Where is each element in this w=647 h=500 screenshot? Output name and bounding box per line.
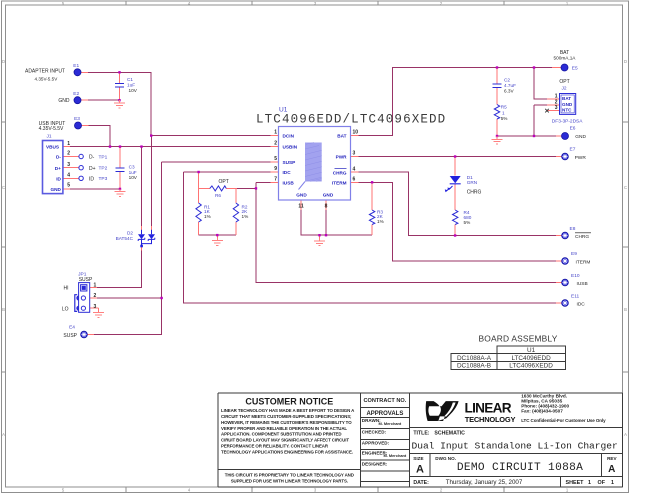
svg-text:SUSP: SUSP	[63, 333, 77, 339]
svg-text:IUSB: IUSB	[577, 281, 588, 287]
svg-text:1: 1	[588, 480, 591, 486]
svg-text:6.3V: 6.3V	[504, 89, 515, 94]
svg-text:7: 7	[274, 176, 277, 182]
svg-text:APPLICATION. COMPONENT SUBSTI: APPLICATION. COMPONENT SUBSTITUTION AND …	[221, 432, 341, 437]
svg-text:DF3-3P-2DSA: DF3-3P-2DSA	[552, 118, 583, 124]
svg-text:PWR: PWR	[336, 155, 348, 160]
svg-text:ITERM: ITERM	[332, 180, 347, 185]
svg-text:D: D	[2, 59, 5, 64]
svg-text:DESIGNER:: DESIGNER:	[362, 462, 388, 467]
svg-text:3: 3	[94, 304, 97, 310]
svg-text:CONTRACT NO.: CONTRACT NO.	[363, 398, 406, 404]
svg-text:SUSP: SUSP	[283, 160, 296, 165]
svg-text:D-: D-	[56, 155, 61, 160]
svg-text:8: 8	[325, 204, 328, 210]
svg-text:E5: E5	[572, 65, 578, 71]
svg-text:BAT: BAT	[562, 96, 571, 101]
svg-text:ID: ID	[89, 176, 94, 182]
svg-text:J2: J2	[561, 86, 566, 92]
svg-text:DEMO CIRCUIT 1088A: DEMO CIRCUIT 1088A	[457, 462, 583, 474]
svg-text:A: A	[624, 432, 627, 437]
svg-text:TP1: TP1	[99, 154, 108, 160]
svg-text:1: 1	[611, 480, 614, 486]
svg-text:1: 1	[274, 130, 277, 136]
svg-text:PERFORMANCE OR RELIABILITY. C: PERFORMANCE OR RELIABILITY. CONTACT LINE…	[221, 444, 329, 449]
svg-text:IUSB: IUSB	[283, 180, 295, 185]
svg-text:E6: E6	[570, 126, 576, 132]
svg-text:OF: OF	[598, 480, 606, 486]
svg-text:CUSTOMER NOTICE: CUSTOMER NOTICE	[245, 397, 333, 407]
svg-text:5%: 5%	[464, 220, 471, 225]
svg-text:OPT: OPT	[219, 179, 229, 185]
svg-text:VBUS: VBUS	[46, 145, 59, 150]
svg-text:HI: HI	[64, 286, 69, 292]
svg-text:Dual Input Standalone Li-Ion C: Dual Input Standalone Li-Ion Charger	[412, 440, 618, 451]
svg-text:TECHNOLOGY APPLICATIONS ENGINE: TECHNOLOGY APPLICATIONS ENGINEERING FOR …	[221, 449, 353, 454]
svg-text:10V: 10V	[129, 175, 138, 180]
svg-text:2: 2	[67, 151, 70, 157]
svg-text:PWR: PWR	[575, 155, 587, 161]
svg-text:3: 3	[353, 151, 356, 157]
svg-text:GND: GND	[575, 134, 586, 140]
svg-text:LTC Confidential-For Customer: LTC Confidential-For Customer Use Only	[521, 418, 606, 423]
svg-text:LO: LO	[62, 306, 69, 312]
svg-text:E4: E4	[69, 325, 75, 331]
svg-text:U1: U1	[527, 347, 536, 354]
svg-text:GRN: GRN	[467, 180, 477, 185]
svg-text:D+: D+	[89, 166, 96, 172]
svg-text:M. Merchant: M. Merchant	[379, 421, 402, 426]
svg-text:B: B	[624, 307, 627, 312]
svg-text:DWG NO.: DWG NO.	[435, 456, 456, 461]
svg-text:1: 1	[502, 110, 505, 115]
svg-text:THIS CIRCUIT IS PROPRIETARY TO: THIS CIRCUIT IS PROPRIETARY TO LINEAR TE…	[225, 472, 354, 477]
svg-text:LINEAR: LINEAR	[465, 400, 512, 415]
svg-text:LTC4096EDD: LTC4096EDD	[511, 355, 551, 362]
svg-text:1K: 1K	[204, 209, 211, 214]
svg-text:REV: REV	[607, 456, 617, 461]
svg-text:CIRCUIT THAT MEETS CUSTOMER-SU: CIRCUIT THAT MEETS CUSTOMER-SUPPLIED SPE…	[221, 414, 352, 419]
svg-text:1%: 1%	[204, 214, 211, 219]
svg-text:C2: C2	[504, 77, 510, 82]
svg-text:IDC: IDC	[283, 170, 292, 175]
svg-text:D+: D+	[55, 166, 61, 171]
svg-text:2: 2	[274, 141, 277, 147]
svg-text:D-: D-	[89, 155, 95, 161]
svg-text:D2: D2	[127, 231, 133, 236]
svg-text:SUSP: SUSP	[79, 277, 93, 283]
svg-text:5%: 5%	[501, 116, 508, 121]
svg-text:C3: C3	[129, 165, 135, 170]
svg-text:D: D	[624, 59, 627, 64]
svg-text:VERIFY PROPER AND RELIABLE OPE: VERIFY PROPER AND RELIABLE OPERATION IN …	[221, 426, 347, 431]
svg-text:TECHNOLOGY: TECHNOLOGY	[465, 415, 516, 424]
svg-text:C1: C1	[127, 77, 133, 82]
svg-text:CHRG: CHRG	[467, 190, 482, 196]
svg-text:BAT54C: BAT54C	[116, 236, 134, 241]
svg-text:E3: E3	[74, 116, 80, 122]
svg-text:1%: 1%	[377, 219, 384, 224]
svg-text:GND: GND	[562, 102, 573, 107]
svg-text:4.35V-5.5V: 4.35V-5.5V	[39, 126, 64, 132]
svg-text:J1: J1	[47, 133, 52, 139]
svg-text:OPT: OPT	[559, 79, 569, 85]
svg-text:2K: 2K	[242, 209, 249, 214]
svg-text:E11: E11	[571, 294, 580, 300]
svg-text:APPROVED:: APPROVED:	[362, 440, 390, 445]
svg-text:GND: GND	[323, 192, 334, 197]
svg-text:1: 1	[94, 282, 97, 288]
svg-text:DATE:: DATE:	[413, 480, 429, 486]
svg-text:9: 9	[274, 166, 277, 172]
svg-text:BAT: BAT	[337, 134, 346, 139]
svg-text:1uF: 1uF	[129, 170, 137, 175]
svg-text:R5: R5	[501, 105, 507, 110]
svg-text:USBIN: USBIN	[283, 145, 298, 150]
svg-text:DC1088A-B: DC1088A-B	[457, 363, 491, 370]
svg-text:DCIN: DCIN	[283, 134, 295, 139]
svg-text:E9: E9	[571, 251, 577, 257]
svg-text:6: 6	[353, 176, 356, 182]
svg-text:1uF: 1uF	[127, 83, 135, 88]
svg-text:1%: 1%	[242, 214, 249, 219]
svg-text:GND: GND	[58, 98, 70, 104]
svg-text:SCHEMATIC: SCHEMATIC	[434, 431, 465, 437]
svg-text:TP3: TP3	[99, 176, 108, 182]
svg-text:LINEAR TECHNOLOGY HAS MADE A B: LINEAR TECHNOLOGY HAS MADE A BEST EFFORT…	[221, 408, 355, 413]
svg-text:DC1088A-A: DC1088A-A	[457, 355, 492, 362]
svg-text:CHECKED:: CHECKED:	[362, 430, 387, 435]
svg-text:A: A	[416, 463, 424, 475]
svg-text:680: 680	[464, 215, 472, 220]
svg-text:E2: E2	[73, 91, 79, 97]
svg-text:SIZE: SIZE	[413, 456, 423, 461]
svg-text:CIRUIT BOARD LAYOUT MAY SIGNIF: CIRUIT BOARD LAYOUT MAY SIGNIFICANTLY AF…	[221, 438, 349, 443]
svg-text:C: C	[624, 185, 627, 190]
svg-text:2K: 2K	[377, 214, 384, 219]
svg-text:SHEET: SHEET	[566, 480, 585, 486]
svg-text:TITLE:: TITLE:	[413, 431, 429, 437]
svg-text:4.7uF: 4.7uF	[504, 83, 516, 88]
svg-text:LTC4096EDD/LTC4096XEDD: LTC4096EDD/LTC4096XEDD	[256, 112, 446, 126]
svg-text:3: 3	[555, 105, 558, 111]
svg-text:C: C	[2, 185, 5, 190]
svg-text:E8: E8	[570, 226, 576, 232]
svg-text:TP2: TP2	[99, 166, 108, 172]
svg-text:ITERM: ITERM	[576, 260, 591, 266]
svg-text:R6: R6	[215, 193, 221, 198]
svg-text:11: 11	[298, 204, 304, 210]
svg-text:LTC4096XEDD: LTC4096XEDD	[509, 363, 553, 370]
svg-text:IDC: IDC	[577, 301, 586, 307]
svg-text:500mA,1A: 500mA,1A	[554, 55, 577, 60]
svg-text:Thursday, January 25, 2007: Thursday, January 25, 2007	[446, 479, 523, 486]
svg-text:4.35V-5.5V: 4.35V-5.5V	[35, 76, 59, 81]
svg-text:E7: E7	[570, 147, 576, 153]
svg-text:BOARD ASSEMBLY: BOARD ASSEMBLY	[479, 334, 558, 344]
svg-text:5: 5	[67, 183, 70, 189]
svg-text:APPROVALS: APPROVALS	[366, 411, 403, 417]
svg-text:CHRG: CHRG	[575, 234, 589, 240]
svg-text:M. Merchant: M. Merchant	[384, 453, 407, 458]
svg-text:NTC: NTC	[562, 108, 572, 113]
svg-text:10: 10	[353, 130, 359, 136]
svg-text:1: 1	[67, 141, 70, 147]
svg-text:HOWEVER, IT REMAINS THE CUSTOM: HOWEVER, IT REMAINS THE CUSTOMER'S RESPO…	[221, 420, 352, 425]
svg-text:GND: GND	[50, 187, 61, 192]
svg-text:4: 4	[353, 166, 356, 172]
svg-text:GND: GND	[296, 192, 307, 197]
svg-text:Fax: (408)434-0507: Fax: (408)434-0507	[521, 409, 563, 414]
svg-text:CHRG: CHRG	[333, 170, 347, 175]
svg-text:10V: 10V	[129, 88, 138, 93]
svg-text:E1: E1	[73, 63, 79, 69]
svg-text:JP1: JP1	[78, 272, 87, 278]
svg-text:ADAPTER INPUT: ADAPTER INPUT	[25, 69, 65, 75]
svg-text:5: 5	[274, 156, 277, 162]
svg-text:3: 3	[67, 162, 70, 168]
svg-text:ID: ID	[56, 176, 61, 181]
svg-text:A: A	[608, 464, 615, 475]
svg-text:2: 2	[94, 293, 97, 299]
svg-text:SUPPLIED FOR USE WITH LINEAR T: SUPPLIED FOR USE WITH LINEAR TECHNOLOGY …	[231, 478, 348, 483]
svg-text:E10: E10	[571, 273, 580, 279]
svg-text:B: B	[2, 307, 5, 312]
svg-text:4: 4	[67, 172, 70, 178]
svg-text:A: A	[2, 432, 5, 437]
